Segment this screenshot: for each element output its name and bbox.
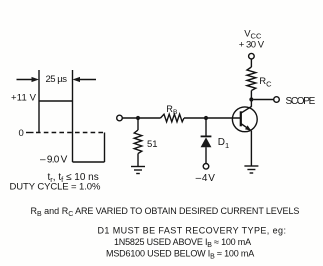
ground G1 <box>131 167 145 174</box>
transistor Q1 base bar <box>240 111 242 126</box>
svg-text:D1: D1 <box>218 137 229 150</box>
dimension arrow right <box>73 77 97 82</box>
node J1 <box>136 116 140 120</box>
wire collector to scope <box>254 99 274 101</box>
svg-text:25 µs: 25 µs <box>46 74 68 85</box>
wire: zero level solid tick <box>26 132 34 134</box>
resistor 51 <box>134 118 142 167</box>
svg-text:MSD6100 USED BELOW IB ≈ 100 mA: MSD6100 USED BELOW IB ≈ 100 mA <box>106 248 254 260</box>
svg-text:DUTY CYCLE = 1.0%: DUTY CYCLE = 1.0% <box>10 182 101 193</box>
node J2 <box>204 116 208 120</box>
transistor Q1 body <box>232 107 257 132</box>
wire: pulse rising edge / left dimension marker <box>38 70 40 133</box>
wire: negative pulse bottom -9V level <box>73 161 105 163</box>
scope terminal <box>274 97 280 103</box>
svg-text:1N5825 USED ABOVE IB ≈ 100 mA: 1N5825 USED ABOVE IB ≈ 100 mA <box>114 237 251 249</box>
svg-text:VCC: VCC <box>244 28 262 40</box>
dimension arrow left <box>17 77 40 82</box>
terminal -4V <box>203 164 209 170</box>
svg-text:– 9.0 V: – 9.0 V <box>40 154 68 165</box>
svg-text:RC: RC <box>259 76 272 88</box>
svg-text:RB and RC ARE VARIED TO OBTAIN: RB and RC ARE VARIED TO OBTAIN DESIRED C… <box>31 206 300 218</box>
wire: negative pulse right edge <box>104 133 106 163</box>
svg-text:+ 30 V: + 30 V <box>239 40 265 51</box>
svg-text:+11 V: +11 V <box>11 93 37 104</box>
transistor Q1 emitter lead with arrow <box>241 124 252 167</box>
svg-text:51: 51 <box>147 139 158 150</box>
svg-text:0: 0 <box>19 128 24 139</box>
svg-text:RB: RB <box>166 104 178 116</box>
svg-text:SCOPE: SCOPE <box>286 96 316 107</box>
VCC terminal <box>249 53 255 59</box>
wire: input to base <box>122 117 160 119</box>
input terminal <box>117 115 123 121</box>
diode D1 <box>201 118 212 164</box>
svg-text:D1 MUST BE FAST RECOVERY TYPE,: D1 MUST BE FAST RECOVERY TYPE, eg: <box>98 225 287 235</box>
resistor RC <box>247 59 256 100</box>
wire: pulse top +11V level <box>39 100 73 102</box>
resistor RB <box>161 114 185 122</box>
wire: zero level dashed line <box>36 132 105 134</box>
transistor Q1 collector lead <box>241 100 252 114</box>
svg-text:– 4 V: – 4 V <box>196 173 216 184</box>
wire: pulse falling edge / right dimension marker <box>72 70 74 162</box>
ground G2 <box>244 166 258 173</box>
node collector <box>249 97 253 101</box>
